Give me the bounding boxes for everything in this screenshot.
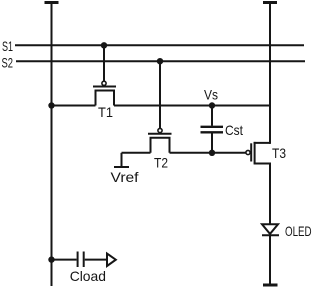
svg-text:T2: T2 — [154, 155, 168, 171]
svg-text:OLED: OLED — [285, 223, 312, 239]
svg-text:Vs: Vs — [204, 87, 218, 103]
svg-text:S2: S2 — [2, 54, 14, 70]
svg-text:Cload: Cload — [70, 268, 106, 284]
svg-text:Cst: Cst — [225, 122, 243, 138]
svg-text:T3: T3 — [272, 145, 286, 161]
svg-text:Vref: Vref — [111, 169, 139, 185]
svg-text:T1: T1 — [98, 104, 113, 120]
svg-text:S1: S1 — [2, 38, 13, 54]
